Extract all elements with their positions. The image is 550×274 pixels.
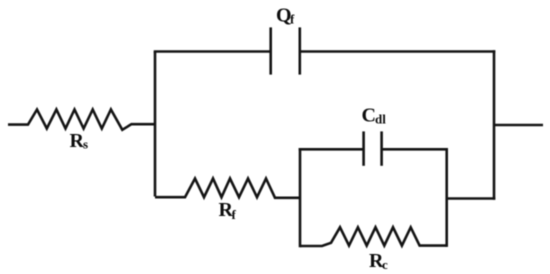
svg-text:f: f (232, 207, 237, 222)
svg-text:s: s (83, 137, 88, 152)
svg-text:C: C (362, 105, 376, 127)
svg-text:c: c (382, 257, 388, 272)
svg-text:dl: dl (375, 112, 386, 127)
svg-text:f: f (290, 12, 295, 27)
